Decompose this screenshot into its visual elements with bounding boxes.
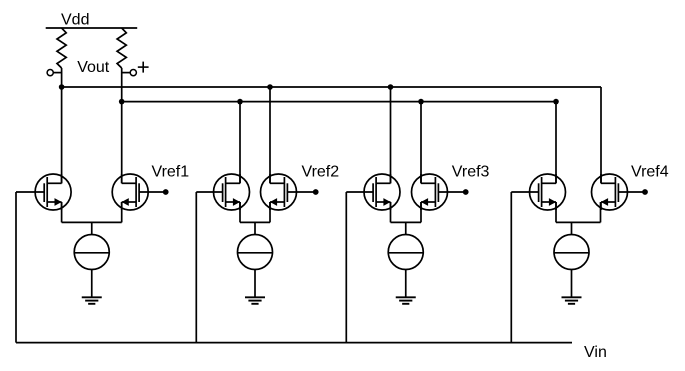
current source I2 [238,235,273,270]
label + (plus) [138,66,149,68]
wire M4 drain [269,87,271,183]
ground I2 [245,296,265,298]
terminal Vout+ [122,72,130,74]
terminal Vref3 [463,189,469,195]
resistor R1 (left load) [57,28,66,68]
node junction M6/line2 [418,99,424,105]
wire M7 gate to Vin [511,191,538,193]
transistor M1 [35,174,71,210]
svg-text:Vref2: Vref2 [302,164,340,181]
wire M8 drain [600,87,602,183]
transistor M7 [530,174,566,210]
wire out+ bus (line2) [122,101,556,103]
node junction M3/line2 [237,99,243,105]
wire M1 gate to Vin [16,191,44,193]
svg-text:Vdd: Vdd [61,12,89,29]
node junction at R2/line2 [119,99,125,105]
wire M3 gate to Vin [196,191,222,193]
ground I4 [562,296,582,298]
wire I4 bottom lead [571,270,573,298]
wire I4 top lead [571,222,573,234]
svg-text:Vref3: Vref3 [452,164,490,181]
wire I1 bottom lead [91,270,93,298]
node junction at R1/line1 [59,84,65,90]
wire out- bus (line1) [62,86,601,88]
svg-text:Vref1: Vref1 [152,164,190,181]
wire Vdd rail [46,27,138,29]
wire I1 top lead [91,222,93,234]
wire M1 drain [61,87,63,183]
wire M4 gate to Vref2 [287,191,315,193]
wire M6 gate to Vref3 [438,191,465,193]
terminal Vref1 [163,189,169,195]
transistor M2 [112,174,148,210]
current source I4 [554,235,589,270]
node junction M4/line1 [267,84,273,90]
wire source join I4 pair [555,202,557,222]
node junction M7/line2 [553,99,559,105]
wire M8 gate to Vref4 [618,191,645,193]
wire M5 drain [390,87,392,183]
wire I2 bottom lead [254,270,256,298]
terminal Vout- [47,70,53,76]
wire M5 gate to Vin [346,191,373,193]
transistor M5 [364,174,400,210]
svg-text:Vref4: Vref4 [631,164,669,181]
ground I1 [82,296,102,298]
wire M3 drain [239,102,241,184]
wire I3 top lead [405,222,407,234]
wire I3 bottom lead [405,270,407,298]
wire M7 drain [555,102,557,184]
svg-text:Vin: Vin [584,344,607,361]
wire M6 drain [420,102,422,184]
ground I3 [396,296,416,298]
terminal Vref2 [313,189,319,195]
wire source join I1 pair [61,202,63,222]
current source I1 [74,235,109,270]
wire M2 gate to Vref1 [139,191,166,193]
svg-text:Vout: Vout [77,59,110,76]
resistor R2 (right load) [117,28,126,68]
wire M2 drain [121,102,123,184]
wire I2 top lead [254,222,256,234]
transistor M6 [412,174,448,210]
transistor M8 [592,174,628,210]
node junction M5/line1 [388,84,394,90]
wire Vin bus [16,342,572,344]
transistor M4 [261,174,297,210]
terminal Vref4 [642,189,648,195]
current source I3 [388,235,423,270]
wire source join I2 pair [239,202,241,222]
transistor M3 [214,174,250,210]
wire source join I3 pair [390,202,392,222]
